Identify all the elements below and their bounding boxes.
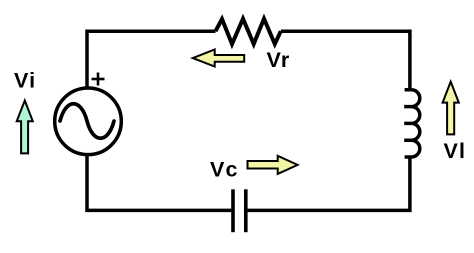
svg-text:Vc: Vc [210,157,239,181]
svg-text:Vl: Vl [444,139,467,163]
svg-text:Vi: Vi [14,68,36,92]
svg-text:Vr: Vr [267,48,291,72]
